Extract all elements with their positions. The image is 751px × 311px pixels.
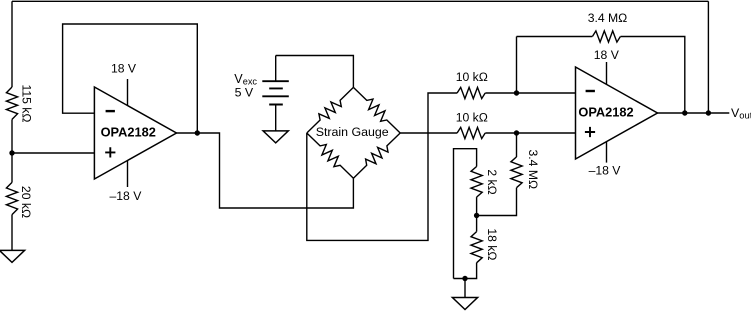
resistor R6 3.4 MΩ — [511, 157, 522, 188]
U1 inverting pin marker — [106, 110, 115, 112]
svg-text:10 kΩ: 10 kΩ — [456, 70, 488, 84]
wire U1 output to bridge bottom node — [177, 133, 354, 208]
wire U2 output to Vout — [658, 112, 730, 114]
wire U2 V- supply stub — [606, 142, 608, 163]
wire U2 feedback left riser — [516, 37, 518, 94]
node ground junction — [462, 276, 467, 281]
wire U1 V- supply stub — [127, 160, 129, 187]
strain gauge bridge arm top-right — [353, 87, 400, 133]
resistor R5 3.4 MΩ feedback — [592, 31, 620, 42]
wire U1 feedback loop (inverting input to output) — [63, 24, 198, 133]
wire left rail middle segment — [11, 119, 13, 182]
wire battery top lead — [275, 56, 277, 82]
U1 noninverting pin marker — [105, 147, 115, 157]
wire R3 to U2 inverting input — [485, 92, 575, 94]
wire Vexc positive to bridge top node — [276, 56, 354, 88]
wire top rail right drop to output node — [707, 1, 709, 113]
wire R7 top shorting link down left side — [454, 149, 477, 279]
svg-text:Vout: Vout — [731, 106, 751, 121]
wire ground stub — [464, 279, 466, 298]
svg-text:–18 V: –18 V — [109, 189, 142, 203]
strain gauge bridge arm top-left — [307, 87, 354, 133]
node top-rail tap on output — [706, 110, 711, 115]
svg-text:18 kΩ: 18 kΩ — [485, 228, 499, 260]
ground G3 gain network — [452, 298, 477, 310]
wire left rail top segment — [11, 1, 13, 87]
wire battery negative to ground — [275, 105, 277, 131]
svg-text:2 kΩ: 2 kΩ — [485, 169, 499, 194]
wire mid node to R8 — [476, 216, 478, 232]
resistor R1 115 kΩ — [6, 87, 17, 119]
svg-text:OPA2182: OPA2182 — [578, 105, 633, 120]
wire U1 noninverting input — [12, 152, 94, 154]
wire R6 to divider mid node — [477, 188, 517, 216]
node feedback tap on output — [682, 110, 687, 115]
U2 noninverting pin marker — [585, 127, 595, 137]
svg-text:20 kΩ: 20 kΩ — [19, 186, 33, 218]
wire U2 + node to R6 — [516, 133, 518, 157]
strain gauge bridge arm bottom-right — [353, 133, 400, 178]
node divider mid junction — [474, 213, 479, 218]
svg-text:–18 V: –18 V — [589, 163, 622, 177]
wire U2 V+ supply stub — [606, 62, 608, 85]
ground G1 left divider — [0, 250, 25, 262]
wire R5 to output node — [621, 37, 685, 114]
node U1 output/feedback junction — [195, 130, 200, 135]
svg-text:OPA2182: OPA2182 — [101, 124, 156, 139]
U2 inverting pin marker — [586, 90, 595, 92]
op-amp U1 OPA2182 (buffer) — [94, 87, 176, 179]
node U2 noninverting input junction — [514, 130, 519, 135]
op-amp U2 OPA2182 (gain stage) — [576, 67, 658, 159]
resistor R4 10 kΩ (to U2 noninverting input) — [457, 127, 485, 138]
battery V1 Vexc 5 V — [262, 81, 289, 104]
strain gauge bridge arm bottom-left — [307, 133, 354, 178]
resistor R8 18 kΩ — [471, 232, 482, 263]
wire feedback to R5 — [517, 36, 593, 38]
svg-text:Strain Gauge: Strain Gauge — [316, 125, 389, 139]
svg-text:10 kΩ: 10 kΩ — [456, 111, 488, 125]
wire bridge left node to R3 input — [307, 93, 457, 240]
wire left rail to ground — [11, 215, 13, 251]
svg-text:5 V: 5 V — [235, 86, 254, 100]
svg-text:3.4 MΩ: 3.4 MΩ — [526, 150, 540, 190]
node U2 inverting input junction — [514, 90, 519, 95]
ground G2 excitation supply — [263, 131, 288, 143]
wire bridge right node to R4 input — [400, 132, 457, 134]
resistor R2 20 kΩ — [6, 182, 17, 214]
wire top rail Vout feedback to left divider — [12, 0, 708, 2]
wire R8 bottom to ground node — [454, 263, 477, 279]
svg-text:3.4 MΩ: 3.4 MΩ — [588, 11, 628, 25]
wire R4 to U2 noninverting input — [485, 132, 575, 134]
svg-text:18 V: 18 V — [594, 48, 620, 62]
svg-text:18 V: 18 V — [111, 62, 137, 76]
wire mid node to R7 — [476, 197, 478, 215]
svg-text:115 kΩ: 115 kΩ — [20, 84, 34, 122]
resistor R3 10 kΩ (to U2 inverting input) — [457, 87, 485, 98]
node left divider junction — [9, 150, 14, 155]
resistor R7 2 kΩ — [471, 167, 482, 198]
wire U1 V+ supply stub — [127, 79, 129, 106]
svg-text:Vexc: Vexc — [234, 72, 257, 87]
